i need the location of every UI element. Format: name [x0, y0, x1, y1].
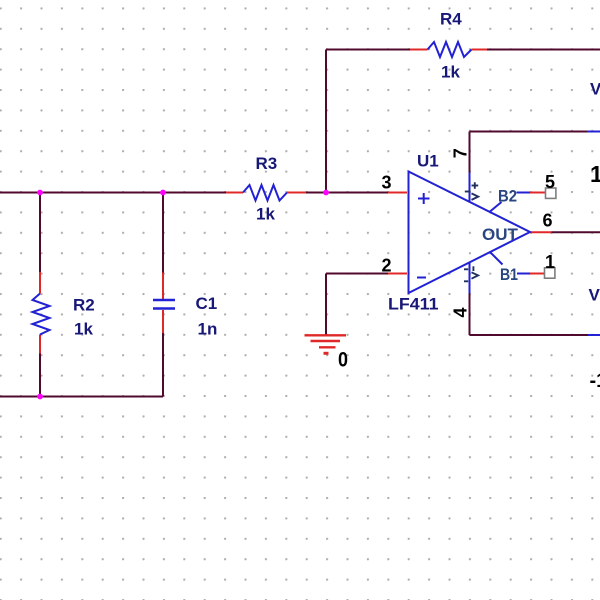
svg-text:1: 1 [590, 161, 600, 187]
svg-text:1k: 1k [441, 63, 460, 82]
svg-text:1n: 1n [198, 320, 218, 339]
svg-text:4: 4 [451, 307, 471, 317]
svg-text:B1: B1 [500, 265, 518, 284]
svg-text:1k: 1k [74, 320, 93, 339]
svg-text:3: 3 [382, 173, 392, 193]
svg-text:6: 6 [543, 211, 553, 231]
svg-text:B2: B2 [498, 187, 517, 206]
svg-text:0: 0 [338, 349, 348, 372]
svg-text:1k: 1k [256, 205, 275, 224]
svg-text:2: 2 [382, 256, 392, 276]
svg-text:C1: C1 [196, 294, 218, 313]
svg-text:1: 1 [545, 252, 555, 272]
svg-text:R4: R4 [440, 10, 462, 29]
svg-text:-1: -1 [590, 370, 600, 392]
svg-text:OUT: OUT [482, 225, 519, 244]
svg-text:R2: R2 [73, 296, 95, 315]
svg-text:V: V [589, 286, 600, 305]
svg-text:R3: R3 [256, 154, 278, 173]
svg-text:LF411: LF411 [388, 295, 439, 314]
svg-text:7: 7 [451, 148, 471, 158]
svg-text:U1: U1 [417, 152, 439, 171]
svg-text:V: V [590, 80, 600, 99]
svg-text:5: 5 [545, 172, 555, 192]
